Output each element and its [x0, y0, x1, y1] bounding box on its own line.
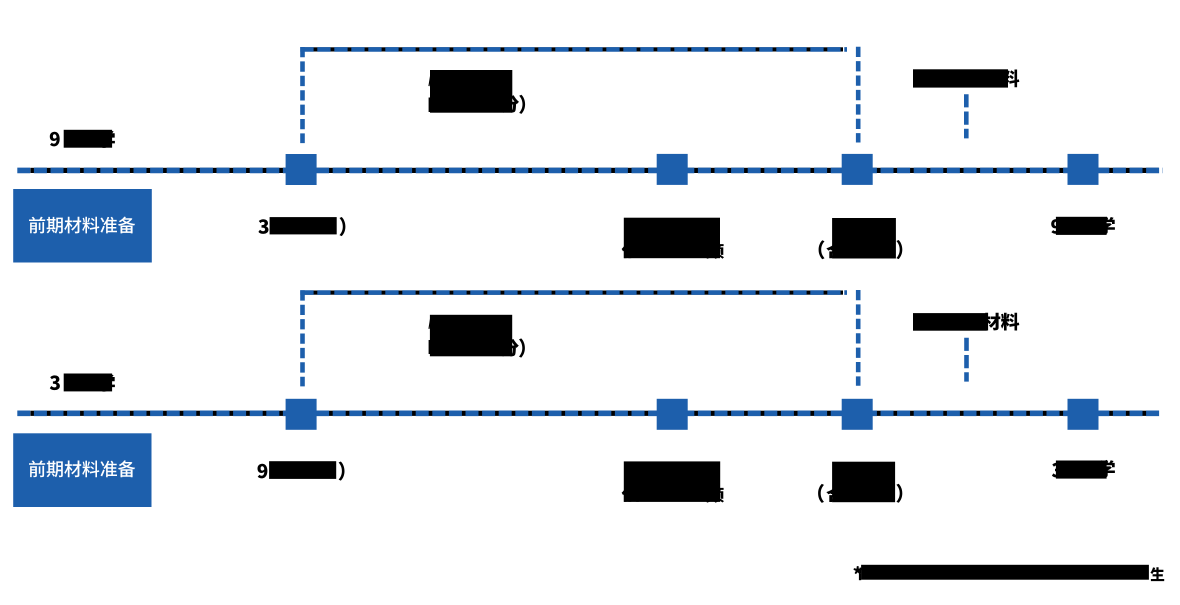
label 2-3 redaction [832, 462, 895, 503]
label 1-4 redaction [1056, 217, 1107, 235]
label 1-3 redaction [832, 218, 896, 259]
bracket 2 top dashed line [300, 291, 847, 295]
bracket 2 close paren [519, 338, 525, 357]
timeline 1 dashed axis [17, 168, 1163, 173]
label 1-1 close paren [340, 217, 346, 236]
right label 1 char 料 [1001, 70, 1019, 88]
timeline 2 dashed axis [17, 411, 1160, 416]
right label 2 char 料 [1001, 313, 1019, 331]
label 1-2 right fragment [706, 243, 724, 259]
node 1-1 [286, 154, 317, 185]
node 2-3 [842, 399, 873, 430]
right label 1 redaction [913, 69, 1008, 87]
bracket 1 close paren [519, 95, 525, 114]
node 2-4 [1068, 399, 1099, 430]
bracket 2 left vertical dashed [300, 290, 305, 386]
node 1-4 [1068, 154, 1099, 185]
footnote redaction [861, 565, 1149, 580]
stage box 2: 前期材料准备 [13, 433, 151, 507]
bracket 1 annotation text (redacted, two lines) [428, 76, 431, 86]
bracket 2 annotation text (redacted, two lines) [428, 319, 431, 329]
footnote asterisk [854, 566, 862, 574]
connector 1 vertical dashed [964, 94, 969, 138]
right label 2 char 材 [982, 313, 1000, 331]
label 1-2 left fragment [622, 243, 640, 258]
label 1-3 char 合 [826, 243, 844, 258]
label 2-2 right fragment [706, 487, 724, 503]
connector 2 vertical dashed [964, 338, 969, 382]
label 2-4 redaction [1056, 461, 1107, 479]
label 1-4 digit 9 [1051, 219, 1061, 234]
bracket 1 char 分 [501, 95, 519, 113]
bracket 1 left vertical dashed [300, 47, 305, 143]
label 2-3 char 合 [826, 487, 844, 503]
box 2 label text [29, 460, 135, 477]
node 2-2 [657, 399, 688, 430]
label 2-1 close paren [339, 462, 345, 481]
node 2-1 [286, 399, 317, 430]
title 2 digit 3 [50, 375, 60, 390]
label 1-4 char 学 [1098, 217, 1115, 235]
title 2 redaction [64, 374, 112, 392]
label 2-4 digit 3 [1052, 463, 1062, 478]
bracket 2 right vertical dashed [856, 290, 861, 386]
bracket 1 right vertical dashed [856, 47, 861, 143]
box 1 label text [29, 217, 135, 234]
label 1-1 digit 3 [258, 219, 268, 234]
footnote char 生 [1150, 567, 1164, 581]
label 2-1 redaction [269, 461, 336, 479]
label 2-3 open paren [818, 484, 824, 503]
right label 2 redaction [913, 313, 987, 331]
title 1 digit 9 [50, 132, 60, 147]
label 2-1 digit 9 [258, 464, 268, 479]
label 2-4 char 学 [1098, 460, 1115, 478]
label 1-1 redaction [270, 217, 337, 234]
stage box 1: 前期材料准备 [13, 189, 152, 263]
title 1 redaction [64, 130, 112, 148]
label 2-2 left fragment [622, 487, 640, 502]
title 1 char 学 [98, 130, 115, 148]
label 2-3 close paren [896, 484, 902, 503]
title 2 char 学 [98, 374, 115, 392]
label 2-2 redaction [624, 461, 720, 502]
label 1-2 redaction [624, 218, 720, 259]
node 1-3 [842, 154, 873, 185]
bracket 2 redaction [430, 315, 512, 357]
bracket 1 redaction [430, 70, 512, 113]
label 1-3 open paren [819, 240, 825, 259]
label 1-3 close paren [896, 240, 902, 259]
bracket 2 char 分 [501, 339, 519, 357]
node 1-2 [657, 154, 688, 185]
bracket 1 top dashed line [300, 47, 847, 51]
